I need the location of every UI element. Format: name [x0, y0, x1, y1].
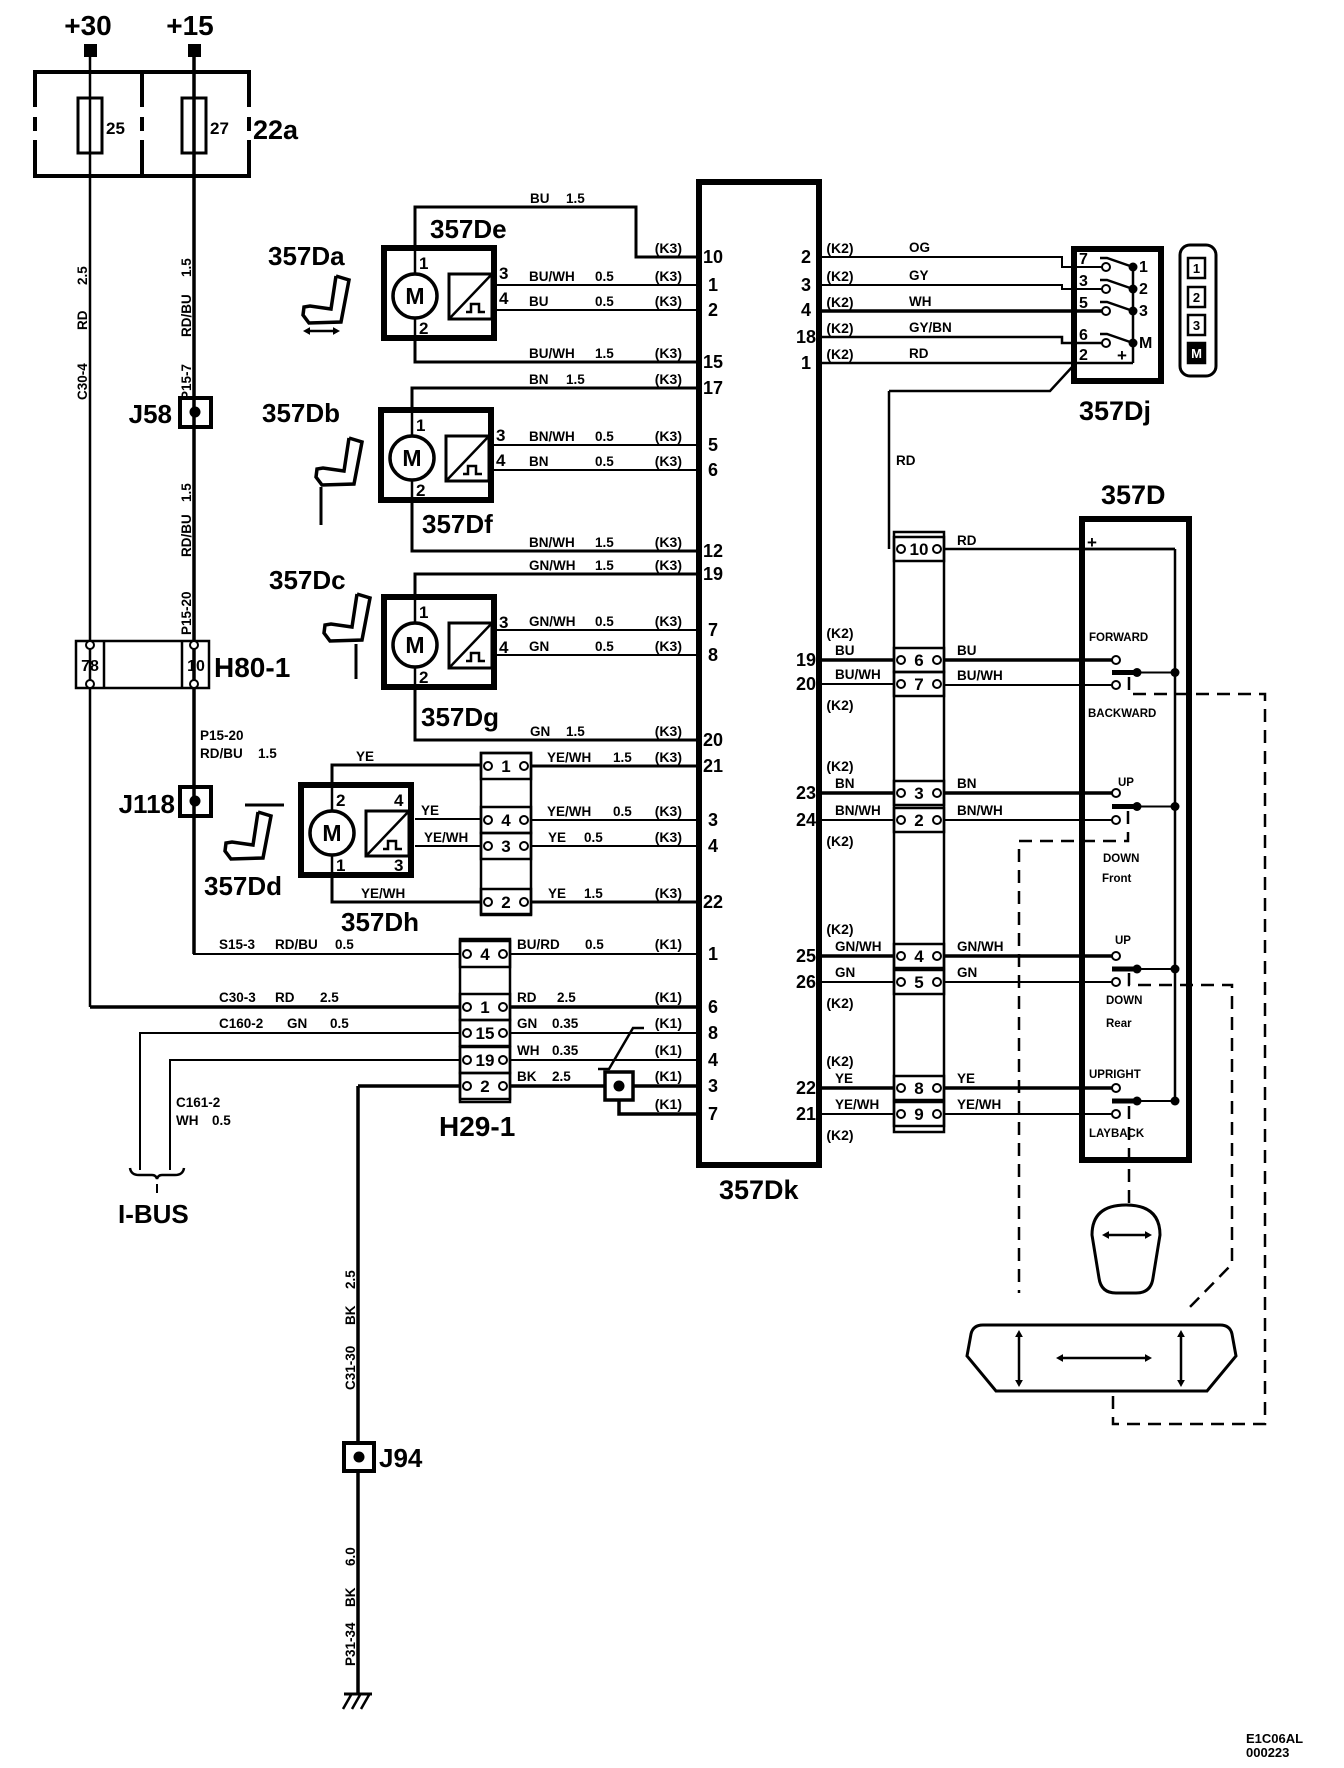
wire BN 1.5 357Db pin1 to 357Dk pin17	[412, 388, 699, 410]
junction J94	[344, 1443, 374, 1471]
svg-text:6: 6	[1079, 327, 1088, 344]
wire BU/WH 357Dk pin20 to strip pin7	[819, 683, 894, 685]
junction box on BK wire	[605, 1072, 633, 1100]
wire BU/RD 0.5 H29-1 pin4 to 357Dk pin1	[510, 953, 699, 955]
svg-text:RD: RD	[957, 533, 977, 548]
svg-text:7: 7	[708, 620, 718, 640]
svg-text:(K3): (K3)	[655, 613, 682, 629]
svg-text:19: 19	[476, 1051, 495, 1070]
svg-text:BN: BN	[835, 776, 855, 791]
svg-text:(K3): (K3)	[655, 371, 682, 387]
svg-text:8: 8	[914, 1079, 923, 1098]
svg-text:(K3): (K3)	[655, 557, 682, 573]
svg-text:(K1): (K1)	[655, 1096, 682, 1112]
wire GN/WH 1.5 357Dc pin1 to 357Dk pin19	[415, 574, 699, 597]
wire BU strip pin6 to FORWARD contact	[944, 658, 1112, 662]
seat base icon	[967, 1325, 1236, 1391]
357Dj common bar and + pin	[1132, 267, 1135, 363]
switch pack 357D box	[1082, 519, 1189, 1160]
svg-text:(K3): (K3)	[655, 268, 682, 284]
wire YE/WH 357Dd pin3 to 357Dh pin3	[415, 845, 481, 847]
svg-text:(K1): (K1)	[655, 936, 682, 952]
svg-text:C161-2: C161-2	[176, 1095, 220, 1110]
seat icon 357Db (front height)	[316, 438, 362, 485]
svg-text:1: 1	[501, 757, 510, 776]
svg-text:DOWN: DOWN	[1103, 853, 1139, 865]
357Dj position legend	[1180, 245, 1216, 376]
wire RD strip pin10 to 357D +	[944, 548, 1175, 551]
svg-text:1: 1	[1139, 259, 1148, 276]
svg-text:0.5: 0.5	[330, 1016, 349, 1031]
svg-text:0.5: 0.5	[585, 937, 604, 952]
wire BK 2.5 H29-1 pin2 to J94 ground run	[358, 1084, 460, 1088]
svg-text:P15-20: P15-20	[179, 591, 194, 635]
svg-text:+: +	[1117, 346, 1127, 365]
357Dj switch contacts	[1102, 263, 1110, 271]
svg-text:357De: 357De	[430, 214, 507, 244]
svg-text:+15: +15	[166, 10, 214, 41]
wire +30 feed (C30-4 RD 2.5)	[89, 56, 92, 1007]
svg-text:(K3): (K3)	[655, 345, 682, 361]
svg-text:P31-34: P31-34	[343, 1622, 358, 1666]
svg-text:YE/WH: YE/WH	[361, 886, 405, 901]
svg-text:BK: BK	[517, 1069, 537, 1084]
svg-text:P15-20: P15-20	[200, 728, 244, 743]
svg-text:BU: BU	[835, 643, 855, 658]
svg-text:4: 4	[394, 791, 404, 810]
357D FORWARD/BACKWARD contact	[1112, 656, 1120, 664]
svg-text:2.5: 2.5	[552, 1069, 571, 1084]
wire YE 357Dd pin4 to 357Dh pin4	[415, 818, 481, 820]
svg-text:GN: GN	[835, 965, 855, 980]
svg-text:3: 3	[394, 856, 403, 875]
svg-text:19: 19	[703, 564, 723, 584]
svg-text:9: 9	[914, 1105, 923, 1124]
svg-text:15: 15	[476, 1024, 495, 1043]
seat icon 357Da (fore/aft)	[303, 276, 349, 323]
switch 357Dj box	[1074, 249, 1161, 381]
svg-text:2: 2	[416, 481, 425, 500]
svg-text:0.5: 0.5	[335, 937, 354, 952]
dashed link rear height	[1129, 973, 1232, 1310]
wire GN 1.5 357Dc pin2 to 357Dk pin20	[415, 687, 699, 740]
wire C160-2 GN 0.5 I-BUS to H29-1 pin15	[140, 1033, 460, 1170]
wire C161-2 WH 0.5 I-BUS to H29-1 pin19	[170, 1060, 460, 1170]
svg-text:2: 2	[480, 1077, 489, 1096]
svg-text:0.35: 0.35	[552, 1043, 579, 1058]
connector strip of 357D	[894, 532, 944, 1132]
svg-text:3: 3	[914, 784, 923, 803]
svg-text:3: 3	[708, 1076, 718, 1096]
svg-text:BN/WH: BN/WH	[957, 803, 1003, 818]
svg-text:7: 7	[1079, 251, 1088, 268]
svg-text:DOWN: DOWN	[1106, 995, 1142, 1007]
svg-text:Front: Front	[1102, 873, 1132, 885]
svg-text:S15-3: S15-3	[219, 937, 256, 952]
svg-text:GY/BN: GY/BN	[909, 320, 952, 335]
svg-text:357Db: 357Db	[262, 398, 340, 428]
svg-text:23: 23	[796, 783, 816, 803]
svg-text:357Da: 357Da	[268, 241, 345, 271]
svg-text:YE: YE	[356, 749, 374, 764]
wire BK 2.5 H29-1 pin2 to junction to 357Dk pin3	[510, 1084, 605, 1088]
svg-text:4: 4	[496, 451, 506, 470]
svg-text:UP: UP	[1115, 935, 1131, 947]
svg-text:(K2): (K2)	[826, 833, 853, 849]
wire YE 357Dd pin2 to 357Dh pin1	[332, 765, 481, 788]
svg-text:24: 24	[796, 810, 816, 830]
svg-text:20: 20	[703, 730, 723, 750]
svg-text:BN: BN	[529, 454, 549, 469]
wire GN/WH 357Dk pin25 to strip pin4	[819, 954, 894, 958]
svg-text:1.5: 1.5	[584, 886, 603, 901]
motor 357Db box	[381, 410, 491, 500]
svg-text:10: 10	[187, 658, 205, 675]
svg-text:Rear: Rear	[1106, 1018, 1132, 1030]
svg-text:YE: YE	[548, 886, 566, 901]
wire RD 357Dj pin2 to connector 357D pin10	[889, 366, 1073, 391]
svg-text:GN: GN	[530, 724, 550, 739]
junction J118	[180, 787, 211, 816]
svg-text:17: 17	[703, 378, 723, 398]
svg-text:1: 1	[419, 254, 428, 273]
svg-text:0.5: 0.5	[595, 429, 614, 444]
svg-text:357Dc: 357Dc	[269, 565, 346, 595]
svg-text:1: 1	[708, 944, 718, 964]
svg-text:GN/WH: GN/WH	[529, 558, 576, 573]
svg-text:27: 27	[210, 119, 229, 138]
svg-text:3: 3	[708, 810, 718, 830]
wire BU/WH 1.5 357Da pin2 to 357Dk pin15	[415, 338, 699, 362]
wire RD 357Dk pin1 to 357Dj pin2	[819, 362, 1133, 365]
svg-text:10: 10	[703, 247, 723, 267]
svg-text:2: 2	[419, 668, 428, 687]
svg-text:3: 3	[499, 264, 508, 283]
svg-text:2.5: 2.5	[343, 1270, 358, 1289]
svg-text:OG: OG	[909, 240, 930, 255]
svg-text:UPRIGHT: UPRIGHT	[1089, 1069, 1141, 1081]
svg-text:RD/BU: RD/BU	[179, 514, 194, 557]
svg-text:10: 10	[910, 540, 929, 559]
seat icon 357Dd (recline)	[225, 812, 271, 859]
svg-text:2.5: 2.5	[557, 990, 576, 1005]
svg-text:0.5: 0.5	[584, 830, 603, 845]
wire C30-3 RD 2.5 to H29-1 pin1	[90, 1005, 460, 1009]
svg-text:(K2): (K2)	[826, 921, 853, 937]
svg-text:0.5: 0.5	[595, 294, 614, 309]
svg-text:8: 8	[708, 645, 718, 665]
svg-text:25: 25	[106, 119, 125, 138]
svg-text:RD: RD	[517, 990, 537, 1005]
svg-text:5: 5	[1079, 295, 1088, 312]
svg-text:2.5: 2.5	[75, 266, 90, 285]
svg-text:BN: BN	[529, 372, 549, 387]
svg-text:2: 2	[708, 300, 718, 320]
svg-text:26: 26	[796, 972, 816, 992]
svg-text:12: 12	[703, 541, 723, 561]
connector H29-1	[460, 939, 510, 1102]
svg-text:(K2): (K2)	[826, 240, 853, 256]
backrest knob icon	[1092, 1205, 1160, 1293]
svg-text:357Dd: 357Dd	[204, 871, 282, 901]
svg-text:357Dg: 357Dg	[421, 702, 499, 732]
svg-text:J118: J118	[119, 789, 175, 819]
wire BN strip pin3 to UP front contact	[944, 791, 1112, 795]
motor 357Dd box	[301, 785, 411, 875]
seat icon 357Dc (rear height)	[324, 594, 370, 641]
svg-text:BACKWARD: BACKWARD	[1088, 708, 1156, 720]
svg-text:3: 3	[801, 275, 811, 295]
svg-text:4: 4	[499, 289, 509, 308]
svg-text:19: 19	[796, 650, 816, 670]
wire BU 0.5 357Da pin4 to 357Dk pin2	[497, 309, 699, 311]
svg-text:(K3): (K3)	[655, 293, 682, 309]
svg-text:6: 6	[914, 651, 923, 670]
svg-text:7: 7	[708, 1104, 718, 1124]
wire YE/WH strip pin9 to LAYBACK contact	[944, 1113, 1112, 1115]
svg-text:3: 3	[501, 837, 510, 856]
svg-text:(K2): (K2)	[826, 758, 853, 774]
svg-text:21: 21	[703, 756, 723, 776]
svg-text:E1C06AL: E1C06AL	[1246, 1731, 1303, 1746]
wire GN/WH strip pin4 to UP rear contact	[944, 954, 1112, 958]
wire BU/WH strip pin7 to BACKWARD contact	[944, 684, 1112, 686]
svg-text:BU/WH: BU/WH	[529, 269, 575, 284]
svg-text:GN: GN	[529, 639, 549, 654]
svg-text:0.5: 0.5	[595, 454, 614, 469]
svg-text:YE/WH: YE/WH	[547, 804, 591, 819]
svg-text:18: 18	[796, 327, 816, 347]
svg-text:(K1): (K1)	[655, 1068, 682, 1084]
svg-text:22a: 22a	[253, 115, 299, 145]
svg-text:0.5: 0.5	[613, 804, 632, 819]
svg-text:000223: 000223	[1246, 1745, 1289, 1760]
svg-text:2: 2	[1079, 347, 1088, 364]
svg-text:1: 1	[708, 275, 718, 295]
svg-text:WH: WH	[176, 1113, 199, 1128]
svg-text:BU: BU	[957, 643, 977, 658]
wire GN 0.35 H29-1 pin15 to 357Dk pin8	[510, 1032, 699, 1034]
svg-text:2: 2	[1139, 281, 1148, 298]
wire GY 357Dk pin3 to 357Dj pin3	[819, 285, 1102, 289]
wire BN 357Dk pin23 to strip pin3	[819, 791, 894, 795]
svg-text:1.5: 1.5	[179, 258, 194, 277]
motor 357Da box	[384, 248, 494, 338]
svg-text:YE/WH: YE/WH	[957, 1097, 1001, 1112]
svg-text:1.5: 1.5	[595, 558, 614, 573]
svg-text:(K1): (K1)	[655, 1015, 682, 1031]
svg-text:1.5: 1.5	[258, 746, 277, 761]
svg-text:3: 3	[496, 426, 505, 445]
svg-text:C30-3: C30-3	[219, 990, 256, 1005]
svg-text:BU: BU	[529, 294, 549, 309]
control unit 357Dk box	[699, 182, 819, 1165]
svg-text:(K3): (K3)	[655, 803, 682, 819]
svg-text:6.0: 6.0	[343, 1547, 358, 1566]
svg-text:BN/WH: BN/WH	[835, 803, 881, 818]
svg-text:P15-7: P15-7	[179, 364, 194, 400]
motor 357Dc box	[384, 597, 494, 687]
svg-text:1: 1	[480, 998, 489, 1017]
svg-text:RD/BU: RD/BU	[275, 937, 318, 952]
svg-text:(K2): (K2)	[826, 625, 853, 641]
svg-text:M: M	[405, 632, 424, 658]
wire OG 357Dk pin2 to 357Dj pin7	[819, 257, 1102, 267]
svg-text:4: 4	[708, 1050, 718, 1070]
svg-text:C30-4: C30-4	[75, 363, 90, 400]
svg-text:6: 6	[708, 460, 718, 480]
junction J58	[180, 398, 211, 427]
I-BUS bus bar	[130, 1168, 184, 1179]
wire YE/WH 1.5 357Dh pin1 to 357Dk pin21	[531, 765, 699, 768]
svg-text:BN: BN	[957, 776, 977, 791]
svg-text:GN/WH: GN/WH	[529, 614, 576, 629]
svg-text:GY: GY	[909, 268, 929, 283]
fuse 27	[182, 98, 206, 153]
svg-text:H80-1: H80-1	[214, 652, 290, 683]
svg-text:M: M	[405, 283, 424, 309]
wire P31-34 BK 6.0 vertical	[356, 1471, 360, 1694]
svg-text:(K3): (K3)	[655, 749, 682, 765]
svg-text:BU/WH: BU/WH	[957, 668, 1003, 683]
svg-text:M: M	[322, 820, 341, 846]
svg-text:1.5: 1.5	[179, 483, 194, 502]
connector H80-1	[76, 641, 209, 688]
svg-text:2: 2	[419, 319, 428, 338]
357D UP/DOWN rear contact	[1112, 952, 1120, 960]
svg-text:2: 2	[501, 893, 510, 912]
svg-text:GN/WH: GN/WH	[835, 939, 882, 954]
svg-text:(K2): (K2)	[826, 995, 853, 1011]
svg-text:25: 25	[796, 946, 816, 966]
svg-text:C160-2: C160-2	[219, 1016, 263, 1031]
svg-text:4: 4	[801, 300, 811, 320]
wire YE 357Dk pin22 to strip pin8	[819, 1086, 894, 1090]
wire GN strip pin5 to DOWN rear contact	[944, 981, 1112, 983]
svg-text:5: 5	[708, 435, 718, 455]
dashed link seat slide	[1113, 677, 1265, 1424]
svg-text:C31-30: C31-30	[343, 1346, 358, 1390]
svg-text:357D: 357D	[1101, 480, 1166, 510]
svg-text:(K3): (K3)	[655, 428, 682, 444]
357D UPRIGHT/LAYBACK contact	[1112, 1084, 1120, 1092]
wire YE strip pin8 to UPRIGHT contact	[944, 1086, 1112, 1090]
svg-text:21: 21	[796, 1104, 816, 1124]
svg-text:WH: WH	[909, 294, 932, 309]
svg-text:(K3): (K3)	[655, 829, 682, 845]
wire C31-30 BK 2.5 vertical	[356, 1086, 360, 1443]
wire BU/WH 0.5 357Da pin3 to 357Dk pin1	[497, 284, 699, 286]
wire S15-3 RD/BU 0.5 from J118 to H29-1 pin4	[194, 816, 460, 954]
svg-text:(K3): (K3)	[655, 638, 682, 654]
wire GN 357Dk pin26 to strip pin5	[819, 981, 894, 983]
svg-text:2: 2	[336, 791, 345, 810]
svg-text:I-BUS: I-BUS	[118, 1199, 189, 1229]
svg-text:357Dh: 357Dh	[341, 907, 419, 937]
svg-text:RD: RD	[909, 346, 929, 361]
svg-text:7: 7	[914, 675, 923, 694]
svg-text:(K2): (K2)	[826, 346, 853, 362]
svg-text:GN: GN	[517, 1016, 537, 1031]
svg-text:BK: BK	[343, 1587, 358, 1607]
svg-text:BU: BU	[530, 191, 550, 206]
svg-text:(K3): (K3)	[655, 885, 682, 901]
wire BN 0.5 357Db pin4 to 357Dk pin6	[494, 469, 699, 471]
svg-text:GN/WH: GN/WH	[957, 939, 1004, 954]
wire BK branch junction to 357Dk pin7	[619, 1100, 699, 1114]
svg-text:1.5: 1.5	[566, 191, 585, 206]
wire YE/WH 357Dd pin1 to 357Dh pin2	[332, 872, 481, 902]
svg-text:357Dj: 357Dj	[1079, 396, 1151, 426]
svg-text:H29-1: H29-1	[439, 1111, 515, 1142]
wire GY/BN 357Dk pin18 to 357Dj pin6	[819, 337, 1102, 343]
svg-text:(K2): (K2)	[826, 320, 853, 336]
svg-text:6: 6	[708, 997, 718, 1017]
svg-text:J58: J58	[129, 399, 172, 429]
svg-text:GN: GN	[287, 1016, 307, 1031]
svg-text:+30: +30	[64, 10, 112, 41]
svg-text:BN/WH: BN/WH	[529, 429, 575, 444]
wire BN/WH 0.5 357Db pin3 to 357Dk pin5	[494, 444, 699, 446]
wire BU 357Dk pin19 to strip pin6	[819, 658, 894, 662]
svg-text:RD: RD	[75, 310, 90, 330]
svg-text:3: 3	[1139, 303, 1148, 320]
svg-text:BK: BK	[343, 1305, 358, 1325]
svg-text:2.5: 2.5	[320, 990, 339, 1005]
wire BN/WH 357Dk pin24 to strip pin2	[819, 819, 894, 821]
svg-text:2: 2	[801, 247, 811, 267]
svg-text:1: 1	[336, 856, 345, 875]
svg-text:20: 20	[796, 674, 816, 694]
svg-text:RD/BU: RD/BU	[200, 746, 243, 761]
svg-text:1.5: 1.5	[595, 535, 614, 550]
svg-text:M: M	[1191, 346, 1202, 361]
svg-text:15: 15	[703, 352, 723, 372]
svg-text:2: 2	[914, 811, 923, 830]
fuse 25	[78, 98, 102, 153]
dashed link front height	[1019, 811, 1128, 1293]
svg-text:0.5: 0.5	[595, 614, 614, 629]
svg-text:FORWARD: FORWARD	[1089, 632, 1148, 644]
wire +15 feed (P15-7/P15-20 RD/BU 1.5)	[192, 56, 196, 954]
svg-text:1: 1	[419, 603, 428, 622]
svg-text:(K2): (K2)	[826, 697, 853, 713]
wire YE/WH 357Dk pin21 to strip pin9	[819, 1113, 894, 1115]
wire WH 357Dk pin4 to 357Dj pin5	[819, 309, 1102, 313]
svg-text:YE: YE	[835, 1071, 853, 1086]
svg-text:4: 4	[914, 947, 924, 966]
svg-text:YE: YE	[957, 1071, 975, 1086]
svg-text:22: 22	[796, 1078, 816, 1098]
svg-text:5: 5	[914, 973, 923, 992]
svg-text:UP: UP	[1118, 777, 1134, 789]
svg-text:4: 4	[480, 945, 490, 964]
svg-text:0.5: 0.5	[212, 1113, 231, 1128]
svg-text:1: 1	[1193, 261, 1200, 276]
wire BN/WH strip pin2 to DOWN front contact	[944, 819, 1112, 821]
ground symbol	[344, 1693, 372, 1696]
svg-text:RD: RD	[896, 453, 916, 468]
svg-text:(K3): (K3)	[655, 534, 682, 550]
svg-text:4: 4	[708, 836, 718, 856]
svg-text:8: 8	[708, 1023, 718, 1043]
svg-text:YE: YE	[548, 830, 566, 845]
svg-text:1.5: 1.5	[566, 372, 585, 387]
svg-text:BU/RD: BU/RD	[517, 937, 560, 952]
svg-text:GN: GN	[957, 965, 977, 980]
svg-text:BU/WH: BU/WH	[835, 667, 881, 682]
svg-text:0.5: 0.5	[595, 639, 614, 654]
